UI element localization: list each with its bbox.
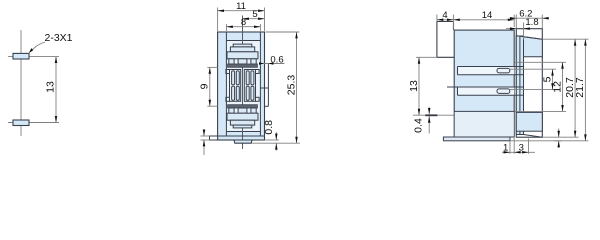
dimension 1.8 [506, 17, 539, 40]
dimension 0.6 leader [259, 55, 285, 66]
base strip left overhang [210, 136, 218, 140]
body slot 1 top [458, 66, 515, 68]
left view bottom pin center line [8, 122, 59, 124]
left gap dimension [201, 129, 210, 155]
bottom hatch band [228, 105, 258, 108]
bottom terminal body [227, 113, 258, 120]
dimension 13 side view [408, 57, 420, 115]
svg-text:13: 13 [45, 81, 57, 93]
svg-text:1.8: 1.8 [525, 17, 538, 28]
body slot 2 left cap [457, 87, 459, 95]
flange blue strip [516, 36, 523, 135]
svg-text:0.4: 0.4 [413, 118, 425, 133]
front view inner left line [225, 32, 227, 136]
svg-text:2-3X1: 2-3X1 [44, 32, 72, 44]
svg-text:14: 14 [482, 10, 493, 21]
bracket hook top [437, 21, 454, 23]
svg-text:21.7: 21.7 [574, 77, 586, 98]
top terminal plate [230, 47, 254, 52]
body slot 2 top [447, 86, 514, 88]
svg-text:12: 12 [552, 81, 564, 93]
bottom terminal cap [233, 125, 252, 128]
extension 5 bottom [510, 89, 556, 91]
bottom terminal plate [230, 120, 254, 125]
side view body [454, 30, 514, 137]
front view top inner line [226, 40, 260, 42]
front view body [218, 32, 265, 140]
flange bottom extension [542, 136, 578, 138]
13 top extension [416, 56, 437, 58]
right side arm [267, 64, 269, 107]
top hatch band [228, 64, 258, 67]
left view bottom pin [13, 120, 29, 126]
extension 12 top [515, 61, 567, 63]
dimension 0.8 [252, 120, 300, 151]
left view top pin center line [8, 56, 59, 58]
dimension 8 [226, 17, 260, 31]
right slot block [244, 70, 255, 102]
dimension 0.4 [413, 108, 431, 134]
label 2-3X1 with leader [29, 32, 73, 53]
svg-text:13: 13 [408, 80, 420, 92]
svg-text:9: 9 [199, 83, 211, 89]
right side arm hook [265, 105, 269, 107]
extension 12 bottom [515, 110, 567, 112]
front view inner right line [259, 32, 261, 136]
side step notches [226, 70, 259, 102]
flange strip divider [519, 36, 521, 135]
dimension 12 [552, 62, 564, 111]
dimension 5 side view [542, 69, 554, 89]
bottom terminal feet [229, 108, 256, 113]
base plate bottom extension [510, 140, 589, 142]
dimensions 1 and 3 bottom [502, 138, 535, 154]
bracket hook bottom [437, 56, 454, 58]
top terminal body [227, 52, 258, 59]
flange top blue block [516, 36, 542, 57]
flange bottom blue block [516, 112, 542, 131]
body bottom line [454, 110, 514, 112]
svg-text:4: 4 [442, 10, 447, 21]
top terminal feet [229, 59, 256, 64]
bracket foot bar [425, 114, 437, 116]
flange top diagonal [516, 36, 542, 40]
dimension 25.3 [266, 32, 300, 143]
base strip top line [218, 135, 265, 137]
left view top pin [13, 53, 29, 59]
plate thickness gap arrows [554, 129, 562, 149]
flange slot lines [514, 67, 524, 96]
dimension 14 [453, 10, 514, 27]
front view bottom inner line [226, 131, 260, 133]
dimension 9 [199, 67, 218, 106]
svg-text:11: 11 [236, 1, 246, 12]
extension 5 top [510, 68, 556, 70]
dimension 6.2 [510, 9, 549, 29]
base plate [443, 137, 510, 141]
front view inner panel [226, 41, 260, 132]
slot pill bottom [497, 89, 510, 94]
dimension 11 [218, 1, 265, 31]
13 bottom extension [413, 114, 456, 116]
left slot block [230, 70, 241, 102]
bottom tab [234, 140, 252, 143]
body slot 1 left cap [457, 67, 459, 75]
right top extension line [542, 38, 588, 40]
dimension 4 [437, 10, 454, 30]
svg-text:5: 5 [252, 9, 257, 20]
bracket hook right [453, 22, 455, 31]
flange bottom diagonal [524, 135, 543, 138]
svg-text:8: 8 [241, 17, 246, 28]
dimension 5 top [243, 9, 265, 20]
slot pill top [497, 68, 510, 73]
top terminal cap [233, 44, 252, 47]
dimension 13 left view [45, 57, 58, 123]
svg-text:25.3: 25.3 [286, 75, 298, 96]
body slot 1 bottom [458, 74, 515, 76]
svg-text:1: 1 [503, 143, 508, 154]
body slot 2 band [458, 87, 515, 95]
svg-text:3: 3 [519, 143, 524, 154]
flange plate [516, 29, 542, 138]
body bottom light band [455, 111, 514, 136]
dimension 20.7 [564, 39, 577, 137]
left view centerline [20, 30, 22, 136]
slot holes [232, 71, 254, 100]
svg-text:0.8: 0.8 [263, 120, 275, 135]
front view centerline [242, 16, 244, 150]
dimension 21.7 [574, 39, 586, 141]
body slot 1 band [458, 67, 515, 75]
bracket hook left [436, 22, 438, 58]
right side arm step [260, 87, 268, 89]
body slot 2 bottom [458, 94, 515, 96]
